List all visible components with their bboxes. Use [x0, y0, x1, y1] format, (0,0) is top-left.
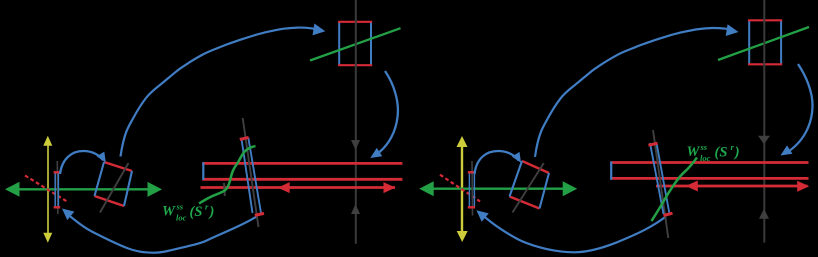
red dashed diagonal line (right mini figure)	[440, 175, 480, 202]
green horizontal axis arrow (right mini figure)	[419, 181, 577, 196]
right-pointing red arrowhead at right end (right)	[797, 181, 809, 192]
dark diagonal line through left square	[100, 163, 129, 213]
big blue arc from right mini figure to top rectangle	[535, 28, 732, 157]
yellow vertical axis arrow (right mini figure)	[457, 136, 468, 242]
red caps of center slab (left)	[240, 137, 264, 215]
green math label W^ss_loc(S^r) (right)	[687, 142, 740, 163]
big blue bottom arc from center slab back to mini figure (right)	[480, 213, 666, 252]
svg-text:(S: (S	[190, 204, 203, 220]
down arrowhead on right vertical line	[758, 136, 770, 145]
long gray vertical line (left), full height	[355, 0, 357, 244]
rotated square (left mini figure) red top/bottom blue left/right	[95, 162, 133, 206]
left-pointing red arrowhead mid-line (left)	[278, 182, 290, 193]
big blue arc from left mini figure to top rectangle	[121, 28, 318, 157]
left-pointing red arrowhead mid-line (right)	[686, 181, 698, 192]
long gray vertical line (right)	[763, 0, 765, 243]
green diagonal line through top rectangle (right)	[718, 27, 809, 60]
svg-text:(S: (S	[715, 145, 728, 161]
blue mini slab (right mini figure)	[469, 173, 474, 208]
red caps of right mini slab	[468, 172, 475, 207]
center slab (right): two tilted blue lines	[650, 143, 670, 214]
big blue bottom arc from center slab back to mini figure (left)	[70, 216, 257, 253]
yellow vertical axis arrow (left mini figure)	[43, 136, 52, 243]
down arrowhead on left vertical line	[351, 140, 360, 150]
green curve from label down through center slab (right)	[652, 158, 698, 222]
top rectangle (right)	[748, 20, 782, 64]
svg-text:ss: ss	[176, 202, 184, 212]
red double horizontal lines (left): top line	[202, 162, 402, 165]
dark steep line behind center slab (right)	[653, 130, 668, 238]
blue bracket joining red lines at left end (right)	[610, 162, 612, 180]
red double horizontal lines (left): middle line	[202, 178, 402, 181]
small dark tick near green curve (left)	[223, 183, 226, 196]
dark steep line behind center slab (left)	[243, 118, 259, 227]
svg-text:loc: loc	[700, 153, 711, 163]
svg-text:loc: loc	[176, 213, 187, 223]
red double horizontal lines (right): middle line	[611, 177, 809, 180]
small blue loop arrow from slab to square (right)	[475, 151, 519, 174]
red double horizontal lines (right): top line	[611, 161, 809, 164]
svg-text:W: W	[162, 204, 176, 220]
small blue loop arrow from slab to square (left)	[60, 151, 103, 174]
svg-text:): )	[208, 204, 215, 220]
top rectangle (left): blue sides red top/bottom	[338, 22, 372, 65]
up arrowhead on right vertical line	[759, 209, 769, 219]
green horizontal axis arrow (left mini figure)	[5, 182, 162, 197]
red caps of left mini slab	[54, 172, 61, 207]
dark vertical tick behind left mini slab	[56, 161, 59, 214]
dark diagonal line through right square	[513, 163, 544, 213]
svg-text:): )	[733, 145, 740, 161]
dark vertical tick behind right mini slab	[471, 161, 474, 216]
blue curved arrow from top rectangle down to vertical line (left)	[375, 71, 398, 156]
green S-curve through center slab (left)	[199, 146, 256, 203]
rotated square (right mini figure)	[510, 161, 550, 209]
svg-text:W: W	[687, 144, 701, 160]
right-pointing red arrowhead at right end (left)	[384, 182, 396, 193]
blue curved arrow from top rectangle down to vertical line (right)	[786, 64, 813, 153]
bottom red arrow line (left)	[201, 186, 396, 189]
red caps of center slab (right)	[649, 143, 673, 215]
blue mini slab (two vertical lines, left mini figure)	[55, 173, 58, 208]
green diagonal line through top rectangle (left)	[310, 28, 401, 60]
blue bracket joining red lines at left end	[202, 162, 204, 180]
bottom red arrow line (right)	[656, 185, 808, 188]
svg-text:ss: ss	[700, 142, 708, 152]
center slab (left): two tilted blue lines	[241, 138, 261, 214]
red dashed diagonal line (left mini figure)	[25, 176, 67, 202]
green math label W^ss_loc(S^r) (left)	[162, 202, 214, 223]
up arrowhead on left vertical line	[351, 204, 360, 214]
